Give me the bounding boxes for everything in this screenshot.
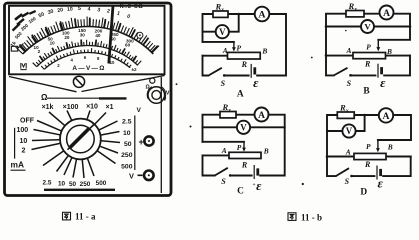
scan speck 1 [190, 126, 192, 128]
svg-text:×100: ×100 [63, 104, 79, 111]
circuit B: battery gap mask [376, 74, 383, 76]
svg-text:500: 500 [121, 164, 133, 171]
svg-text:4: 4 [87, 6, 90, 12]
panel top edge (left slope) [9, 77, 77, 92]
circuit C: rheostat R body [229, 152, 261, 158]
circuit B: wire outer loop [326, 14, 410, 76]
meter scale arc 2 [37, 45, 138, 66]
multimeter panel right inner edge [160, 77, 162, 193]
svg-text:A: A [258, 10, 266, 21]
circuit A: switch gap mask [209, 74, 223, 77]
meter face screw (right) [137, 32, 143, 38]
svg-text:N≡2⋅CΩ: N≡2⋅CΩ [120, 4, 144, 10]
circuit A: wire voltmeter branch [203, 14, 239, 32]
svg-text:30: 30 [80, 33, 86, 38]
svg-text:A: A [383, 9, 390, 19]
svg-text:11 - a: 11 - a [75, 212, 96, 222]
svg-text:S: S [345, 177, 350, 186]
circuit A: wire rheostat left [203, 55, 228, 57]
meter scale arc 3 [44, 52, 130, 69]
meter arc 2 heavy ticks [40, 40, 137, 61]
svg-text:R: R [364, 160, 371, 169]
svg-text:2: 2 [22, 147, 26, 154]
minus dash [138, 174, 143, 176]
terminal + socket [144, 136, 153, 145]
circuit A: voltmeter V [216, 25, 229, 38]
svg-text:A: A [222, 46, 228, 55]
ohm adjust knob [147, 78, 166, 103]
svg-text:5: 5 [78, 6, 81, 12]
svg-text:V: V [166, 90, 170, 96]
svg-text:A: A [383, 111, 390, 122]
circuit B: wire rheostat row [326, 55, 410, 57]
circuit B: junction node right [409, 25, 412, 28]
scan speck 5 [176, 83, 178, 85]
circuit D: rheostat R body [354, 153, 386, 159]
svg-text:A: A [258, 111, 265, 121]
scan speck 4 [345, 30, 347, 32]
circuit C: voltmeter wire [203, 126, 285, 128]
svg-text:P: P [237, 43, 242, 52]
svg-text:+: + [253, 182, 256, 188]
svg-text:V: V [240, 123, 247, 133]
circuit B: resistor Rx [346, 11, 364, 17]
svg-text:B: B [263, 147, 269, 156]
svg-text:20: 20 [64, 35, 70, 40]
svg-text:D: D [360, 187, 367, 197]
svg-text:250: 250 [80, 181, 91, 188]
circuit B: junction node rheostat [325, 54, 328, 57]
circuit A: ammeter A [255, 7, 270, 22]
circuit C: wire outer loop [203, 115, 285, 176]
svg-text:ε: ε [256, 178, 262, 193]
circuit D: switch gap mask [337, 175, 351, 178]
svg-text:Ω: Ω [41, 93, 48, 102]
circuit A: junction node [237, 13, 240, 16]
scan speck 3 [311, 57, 313, 59]
meter scale arc 1 (ohms) [23, 26, 154, 53]
circuit C: slider arrow P [242, 142, 246, 152]
circuit D: voltmeter V [342, 124, 355, 137]
zero adjust screw [73, 76, 84, 87]
circuit D: switch blade S [336, 168, 349, 176]
circuit B: ammeter A [380, 6, 394, 20]
mA underline [11, 169, 26, 171]
meter arc 1 left crowded markings [12, 10, 36, 32]
svg-text:+: + [139, 137, 144, 147]
circuit A: wire loop (left/top/right/bottom) [203, 14, 287, 76]
svg-text:P: P [237, 143, 242, 152]
meter scale window frame [9, 6, 165, 75]
svg-text:10: 10 [123, 130, 131, 137]
svg-text:10: 10 [110, 60, 115, 65]
circuit C: ammeter A [255, 108, 269, 122]
svg-text:A: A [221, 146, 227, 155]
svg-text:B: B [386, 47, 392, 56]
svg-text:V: V [346, 126, 353, 136]
mA bracket line [14, 128, 16, 159]
svg-text:V: V [364, 22, 371, 32]
svg-text:×10: ×10 [86, 104, 98, 111]
svg-text:V: V [129, 171, 134, 180]
svg-text:10: 10 [20, 138, 28, 145]
svg-text:×1k: ×1k [42, 104, 54, 111]
V bracket line [134, 116, 136, 171]
circuit B: switch blade S [334, 68, 348, 76]
circuit D: wire outer loop [327, 115, 411, 176]
meter needle [109, 6, 113, 64]
caption symbol (tu) for 11-b [288, 213, 296, 221]
ohm range underline [47, 97, 127, 99]
svg-text:ε: ε [253, 75, 259, 90]
meter arc 1 heavy ticks [20, 18, 158, 53]
circuit C: switch gap mask [216, 174, 230, 177]
circuit D: switch contact [350, 175, 353, 178]
circuit D: battery gap mask [375, 175, 382, 177]
meter face symbol box (bottom left) [11, 44, 23, 52]
circuit A: battery gap mask [250, 74, 257, 76]
multimeter outer case [5, 3, 172, 196]
circuit B: voltmeter wire [326, 26, 410, 28]
meter arc 3 tick marks [41, 48, 131, 69]
svg-text:S: S [221, 79, 226, 88]
scan speck 2 [302, 183, 304, 185]
meter arc 2 scale numbers [34, 28, 135, 54]
svg-text:R: R [241, 60, 248, 69]
circuit A: switch blade S [209, 68, 222, 76]
svg-text:B: B [363, 87, 369, 97]
svg-text:A: A [237, 89, 244, 99]
svg-text:V: V [219, 27, 226, 37]
circuit D: wire rheostat row [327, 156, 411, 158]
svg-text:ε: ε [378, 176, 384, 191]
ohm multiplier labels [42, 104, 114, 111]
circuit B: junction node left [325, 25, 328, 28]
svg-text:S: S [347, 79, 352, 88]
rotary knob spokes [32, 111, 121, 179]
svg-text:Ω: Ω [146, 85, 150, 91]
svg-text:2.5: 2.5 [122, 119, 132, 126]
svg-text:2: 2 [38, 49, 41, 54]
rotary knob pointer [68, 124, 95, 150]
svg-text:P: P [366, 142, 371, 151]
svg-text:40: 40 [95, 33, 101, 38]
circuit D: resistor Rx [337, 112, 354, 118]
circuit C: voltmeter V [237, 121, 250, 134]
svg-text:mA: mA [11, 160, 25, 170]
svg-text:S: S [221, 177, 226, 186]
circuit C: resistor Rx [220, 112, 236, 118]
circuit A: resistor Rx [213, 11, 228, 17]
circuit A: slider arrow P [232, 42, 236, 52]
svg-text:10: 10 [58, 180, 66, 187]
circuit B: switch contact [350, 74, 353, 77]
circuit D: battery cell [377, 166, 381, 180]
circuit B: slider arrow P [376, 40, 380, 52]
circuit A: switch contact [223, 74, 226, 77]
svg-text:C: C [237, 186, 244, 196]
svg-text:OFF: OFF [20, 118, 35, 125]
panel top edge (right slope) [82, 76, 165, 92]
svg-text:11 - b: 11 - b [301, 212, 322, 222]
rotary selector knob [60, 119, 101, 160]
svg-text:50: 50 [69, 181, 77, 188]
circuit C: battery cell [254, 165, 258, 179]
svg-text:B: B [261, 47, 267, 56]
svg-text:A: A [345, 147, 351, 156]
svg-text:60: 60 [125, 43, 131, 48]
svg-text:R: R [364, 60, 371, 69]
svg-text:10: 10 [50, 41, 56, 46]
svg-text:V: V [137, 107, 142, 114]
circuit C: switch blade S [215, 168, 228, 176]
svg-text:50: 50 [124, 141, 132, 148]
circuit D: ammeter A [379, 108, 393, 122]
circuit D: slider arrow P [376, 140, 380, 152]
meter face symbol V (bottom left) [20, 63, 26, 70]
circuit D: voltmeter branch wire [327, 115, 365, 131]
circuit C: wire rheostat left [203, 154, 230, 156]
circuit A: battery cell [251, 64, 255, 78]
circuit D: junction node rheostat [326, 155, 329, 158]
caption symbol (tu) for 11-a [63, 212, 71, 220]
circuit A: wire slider tap [203, 41, 234, 43]
circuit A: rheostat R body [228, 52, 261, 59]
meter arc 2 tick marks [33, 40, 142, 67]
label mA [11, 160, 25, 170]
svg-text:A—V—Ω: A—V—Ω [72, 65, 105, 72]
terminal - socket [144, 171, 154, 181]
circuit C: switch contact [229, 174, 232, 177]
circuit C: wire slider tap [203, 141, 245, 143]
bottom underline bar [44, 189, 115, 191]
svg-text:500: 500 [96, 180, 107, 187]
circuit B: rheostat R body [353, 53, 386, 59]
bottom range numbers [43, 179, 107, 188]
svg-text:±2: ±2 [131, 67, 137, 72]
circuit C: battery gap mask [253, 174, 260, 176]
circuit B: switch gap mask [335, 74, 350, 77]
svg-text:250: 250 [121, 152, 133, 159]
svg-text:100: 100 [17, 127, 29, 134]
circuit D: junction node [363, 114, 366, 117]
meter arc 1 scale numbers [10, 6, 131, 48]
svg-text:10: 10 [67, 6, 73, 12]
circuit B: battery cell [378, 64, 382, 78]
meter arc 1 tick marks [16, 17, 160, 54]
svg-text:B: B [387, 143, 393, 152]
circuit B: voltmeter V [361, 20, 374, 33]
svg-text:2.5: 2.5 [43, 179, 52, 186]
svg-text:A: A [346, 46, 352, 55]
svg-text:P: P [366, 42, 371, 51]
meter arc 3 scale numbers [57, 55, 115, 68]
svg-text:×1: ×1 [106, 104, 114, 111]
svg-text:ε: ε [380, 75, 386, 90]
svg-text:R: R [241, 160, 248, 169]
ohm adjust knob labels [146, 85, 170, 97]
